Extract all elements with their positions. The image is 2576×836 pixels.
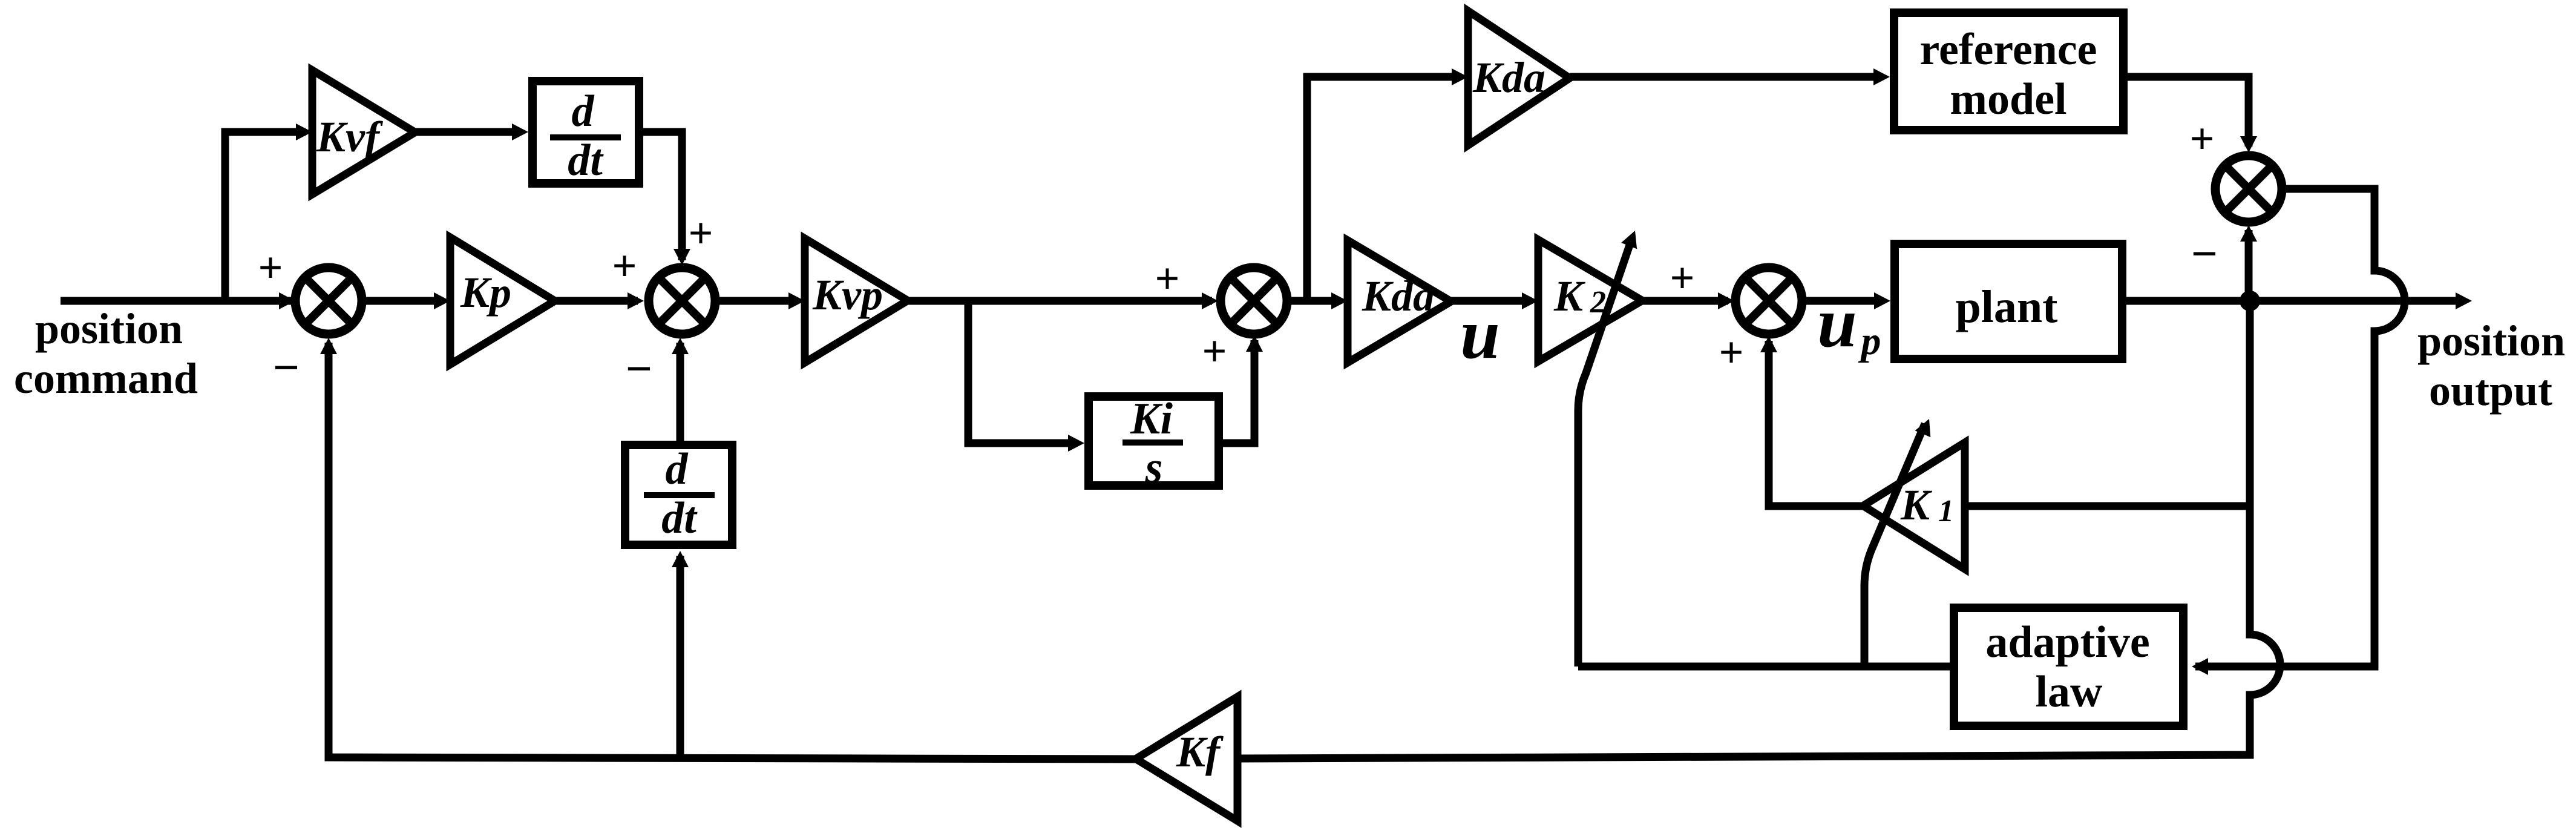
- svg-text:d: d: [572, 87, 595, 136]
- wire d/dt to summer S2 top: [643, 132, 690, 265]
- wire Kda to K2: [1451, 292, 1538, 309]
- label u: [1460, 294, 1500, 374]
- svg-text:reference: reference: [1919, 25, 2097, 74]
- label Kda (middle): [1362, 272, 1435, 320]
- svg-text:plant: plant: [1956, 281, 2058, 332]
- block plant: [1895, 244, 2122, 359]
- gain K1 triangle (variable): [1863, 443, 1965, 569]
- wire branch up to Kvf: [225, 123, 312, 301]
- label K2: [1553, 272, 1606, 320]
- svg-text:u: u: [1817, 283, 1857, 362]
- label + (S1 left input): [258, 243, 283, 292]
- label + (S2 left input): [612, 242, 637, 290]
- summer S3: [1221, 268, 1287, 334]
- label Kvp: [812, 271, 883, 319]
- wire plant to position output: [2126, 292, 2472, 309]
- svg-text:output: output: [2429, 366, 2552, 415]
- svg-text:+: +: [2189, 114, 2214, 163]
- label plant: [1956, 281, 2058, 332]
- svg-text:+: +: [688, 209, 713, 257]
- label K1: [1900, 481, 1954, 529]
- label d/dt (lower): [644, 444, 715, 543]
- summer S1: [295, 268, 362, 334]
- summer S5: [2215, 156, 2282, 222]
- block adaptive law: [1954, 608, 2183, 726]
- label + (S4 left input): [1670, 254, 1694, 302]
- wire Kvp to summer S3: [908, 292, 1218, 309]
- label position command: [14, 304, 198, 403]
- wire S4 to plant: [1806, 292, 1890, 309]
- svg-text:dt: dt: [661, 493, 698, 543]
- wire Kf output to S1 bottom: [320, 338, 1136, 759]
- svg-text:Ki: Ki: [1130, 394, 1173, 444]
- wire S2 to Kvp: [719, 292, 805, 309]
- gain Kvf triangle: [312, 70, 415, 194]
- wire Kda to reference model: [1570, 68, 1890, 85]
- label - (S2 bottom input): [626, 342, 652, 395]
- label position output: [2417, 317, 2565, 415]
- label Ki/s: [1122, 394, 1183, 493]
- label + (S3 left input): [1155, 254, 1179, 303]
- svg-text:Kda: Kda: [1362, 272, 1435, 320]
- svg-text:model: model: [1950, 74, 2066, 124]
- wire Ki/s to S3 bottom: [1223, 335, 1263, 443]
- svg-text:position: position: [2417, 317, 2565, 365]
- wire branch up to d/dt (lower): [672, 551, 689, 757]
- label + (S5 top input): [2189, 114, 2214, 163]
- label adaptive law: [1985, 617, 2149, 717]
- wire branch down to Ki/s: [968, 301, 1084, 452]
- wire branch up to Kda (upper): [1307, 68, 1468, 301]
- svg-text:law: law: [2036, 667, 2103, 717]
- block Ki/s: [1089, 397, 1219, 485]
- wire adaptive law output: [1578, 663, 1950, 671]
- svg-text:Kp: Kp: [460, 268, 511, 317]
- node plant output junction: [2240, 291, 2260, 311]
- wire Kp to S2: [555, 292, 644, 309]
- label - (S1 bottom input): [273, 341, 300, 393]
- svg-text:u: u: [1460, 294, 1500, 374]
- block d/dt (lower): [625, 445, 732, 545]
- wire S5 output over main line to adaptive law: [2192, 189, 2405, 675]
- label Kvf: [316, 113, 383, 161]
- summer S4: [1735, 268, 1802, 334]
- label up (plant input): [1817, 283, 1881, 363]
- label Kf: [1176, 728, 1224, 776]
- svg-text:s: s: [1145, 443, 1163, 493]
- wire node to K1 input: [1965, 502, 2250, 510]
- svg-text:Kvp: Kvp: [812, 271, 883, 319]
- wire node down with hop to bottom feedback: [1237, 301, 2280, 759]
- svg-text:+: +: [612, 242, 637, 290]
- svg-text:+: +: [1155, 254, 1179, 303]
- label d/dt (upper): [550, 87, 621, 185]
- svg-text:+: +: [258, 243, 283, 292]
- svg-text:d: d: [666, 444, 689, 494]
- svg-text:+: +: [1719, 328, 1743, 377]
- label + (S4 bottom input): [1719, 328, 1743, 377]
- svg-text:dt: dt: [568, 136, 604, 185]
- label Kda (upper): [1472, 53, 1545, 102]
- wire S3 to Kda (middle): [1291, 292, 1348, 309]
- svg-text:+: +: [1202, 327, 1227, 375]
- svg-text:−: −: [273, 341, 300, 393]
- gain Kf triangle: [1136, 697, 1237, 821]
- label reference model: [1919, 25, 2097, 124]
- svg-text:command: command: [14, 354, 198, 403]
- svg-text:1: 1: [1938, 494, 1954, 528]
- wire K2 to summer S4: [1642, 292, 1734, 309]
- wire S1 to Kp: [366, 292, 450, 309]
- svg-text:position: position: [35, 304, 183, 353]
- block d/dt (upper): [533, 81, 639, 183]
- svg-text:+: +: [1670, 254, 1694, 302]
- svg-text:adaptive: adaptive: [1985, 617, 2149, 667]
- label + (S3 bottom input): [1202, 327, 1227, 375]
- label + (S2 top input): [688, 209, 713, 257]
- svg-text:Kda: Kda: [1472, 53, 1545, 102]
- wire S5 bottom input from node: [2240, 225, 2257, 297]
- node input: position command source: [61, 292, 295, 309]
- svg-text:K: K: [1553, 272, 1586, 320]
- svg-text:−: −: [2191, 227, 2218, 280]
- svg-text:Kvf: Kvf: [316, 113, 383, 161]
- label - (S5 bottom input): [2191, 227, 2218, 280]
- gain Kvp triangle: [805, 239, 908, 363]
- svg-text:−: −: [626, 342, 652, 395]
- gain K2 triangle (variable): [1538, 240, 1642, 361]
- gain Kda triangle (middle): [1348, 240, 1451, 363]
- gain Kda triangle (upper): [1468, 11, 1570, 145]
- label Kp: [460, 268, 511, 317]
- wire adaptive law to K2 adjust arrow: [1578, 231, 1637, 666]
- summer S2: [649, 268, 715, 334]
- wire K1 to S4 bottom: [1760, 336, 1863, 506]
- gain Kp triangle: [450, 237, 555, 364]
- svg-text:K: K: [1900, 481, 1933, 529]
- block reference model: [1894, 13, 2123, 130]
- svg-text:p: p: [1858, 319, 1881, 363]
- wire reference model to summer S5 top: [2128, 77, 2257, 153]
- wire d/dt (lower) to S2 bottom: [672, 338, 689, 441]
- wire Kvf to d/dt: [415, 123, 528, 140]
- wire adaptive law to K1 adjust arrow: [1864, 419, 1930, 666]
- svg-text:Kf: Kf: [1176, 728, 1224, 776]
